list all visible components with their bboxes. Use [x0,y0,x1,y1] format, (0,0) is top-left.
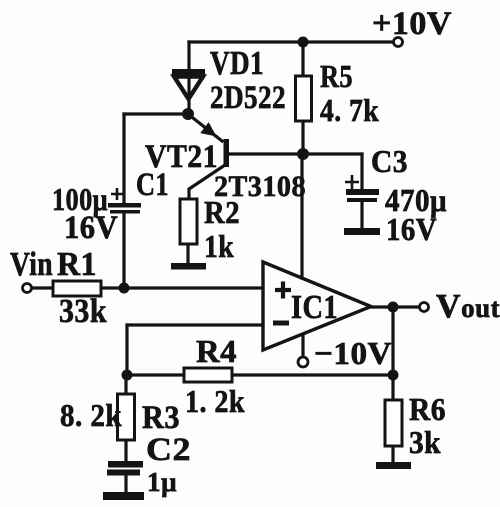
capacitor C1 plus sign [111,188,123,200]
resistor R5 body [296,76,312,121]
wire diode drop from rail [187,42,190,112]
wire Vin to R1 [31,286,53,289]
wire C1 upper lead [122,114,125,203]
svg-text:C1: C1 [136,167,169,203]
svg-text:3k: 3k [409,424,441,460]
wire op-amp minus input feedback [127,323,263,326]
wire node down to op-amp top edge [300,154,303,278]
wire R1 to op-amp plus input [101,286,263,289]
node junction output [388,302,399,313]
transistor VT21 emitter arrow [202,124,215,135]
wire feedback drop [125,325,128,375]
svg-text:Vout: Vout [436,288,500,325]
svg-text:+10V: +10V [372,6,452,42]
wire R2 top lead from collector [189,165,225,199]
wire op-amp negative supply stub [301,334,304,357]
wire C3 bottom lead [360,202,363,229]
svg-text:C3: C3 [371,143,408,179]
op-amp IC1 triangle [263,262,371,350]
wire output drop [391,307,394,375]
transistor Q1 emitter lead [188,114,222,141]
wire R6 bottom lead [391,446,394,463]
resistor R2 body [180,199,197,244]
transistor VT21 base bar [224,139,230,167]
capacitor C1 plates [108,203,141,208]
node junction R4-R6 [388,370,399,381]
node junction diode-C1-emitter [182,108,194,120]
wire R2 bottom lead [186,244,189,264]
svg-text:Vin: Vin [10,246,53,283]
node junction top rail R5 [298,37,309,48]
svg-text:R5: R5 [320,58,353,94]
svg-text:1k: 1k [204,228,234,264]
wire R5 top lead [301,42,304,76]
svg-text:−10V: −10V [314,335,392,371]
op-amp plus input symbol [275,282,291,299]
resistor R6 body [385,400,402,446]
terminal Vout [420,303,429,312]
terminal -10V supply pin [298,357,308,367]
svg-text:16V: 16V [64,210,118,246]
wire top rail +10V [189,40,394,43]
svg-text:R2: R2 [204,194,240,230]
svg-text:4. 7k: 4. 7k [320,92,379,128]
wire R3 top lead [124,375,127,394]
svg-text:2D522: 2D522 [210,80,286,116]
svg-text:8. 2k: 8. 2k [60,397,122,433]
ground under C3 [344,228,380,235]
op-amp minus input symbol [273,321,289,326]
wire R3 to C2 [124,440,127,462]
ground under R6 [376,462,411,469]
node junction R1-C1-input [119,283,130,294]
wire feedback bottom rail through R4 [127,373,393,376]
resistor R4 body [184,368,232,382]
svg-text:33k: 33k [59,293,107,330]
wire R5 bottom lead [301,121,304,154]
capacitor C2 plates [108,461,143,468]
svg-text:IC1: IC1 [291,289,338,326]
svg-text:R4: R4 [196,333,237,369]
svg-text:16V: 16V [386,211,437,247]
capacitor C3 plates [346,189,379,195]
wire R6 top lead [391,375,394,400]
wire junction to C1 top [124,112,188,115]
wire node to C3 [303,152,362,155]
wire C3 top lead [360,154,363,190]
capacitor C3 plus sign [345,175,359,189]
svg-text:1μ: 1μ [147,467,177,497]
wire C2 to ground [124,475,127,493]
svg-text:C2: C2 [146,432,191,468]
wire C1 lower lead to input node [122,213,125,288]
svg-text:VD1: VD1 [210,45,264,82]
node junction feedback R3 R4 [122,370,133,381]
wire op-amp output [371,305,420,308]
svg-text:1. 2k: 1. 2k [185,383,245,419]
ground under R2 [171,263,206,270]
ground under C2 [103,492,144,500]
svg-text:R6: R6 [409,391,446,427]
resistor R1 body [53,281,101,296]
svg-text:R1: R1 [57,246,97,283]
diode VD1 triangle [174,77,203,100]
svg-text:R3: R3 [142,400,180,436]
diode VD1 cathode bar [172,69,205,75]
terminal Vin [23,284,32,293]
wire transistor base lead [227,152,303,155]
node junction base-R5-C3 [297,148,309,160]
resistor R3 body [118,394,135,440]
terminal +10V [394,38,403,47]
